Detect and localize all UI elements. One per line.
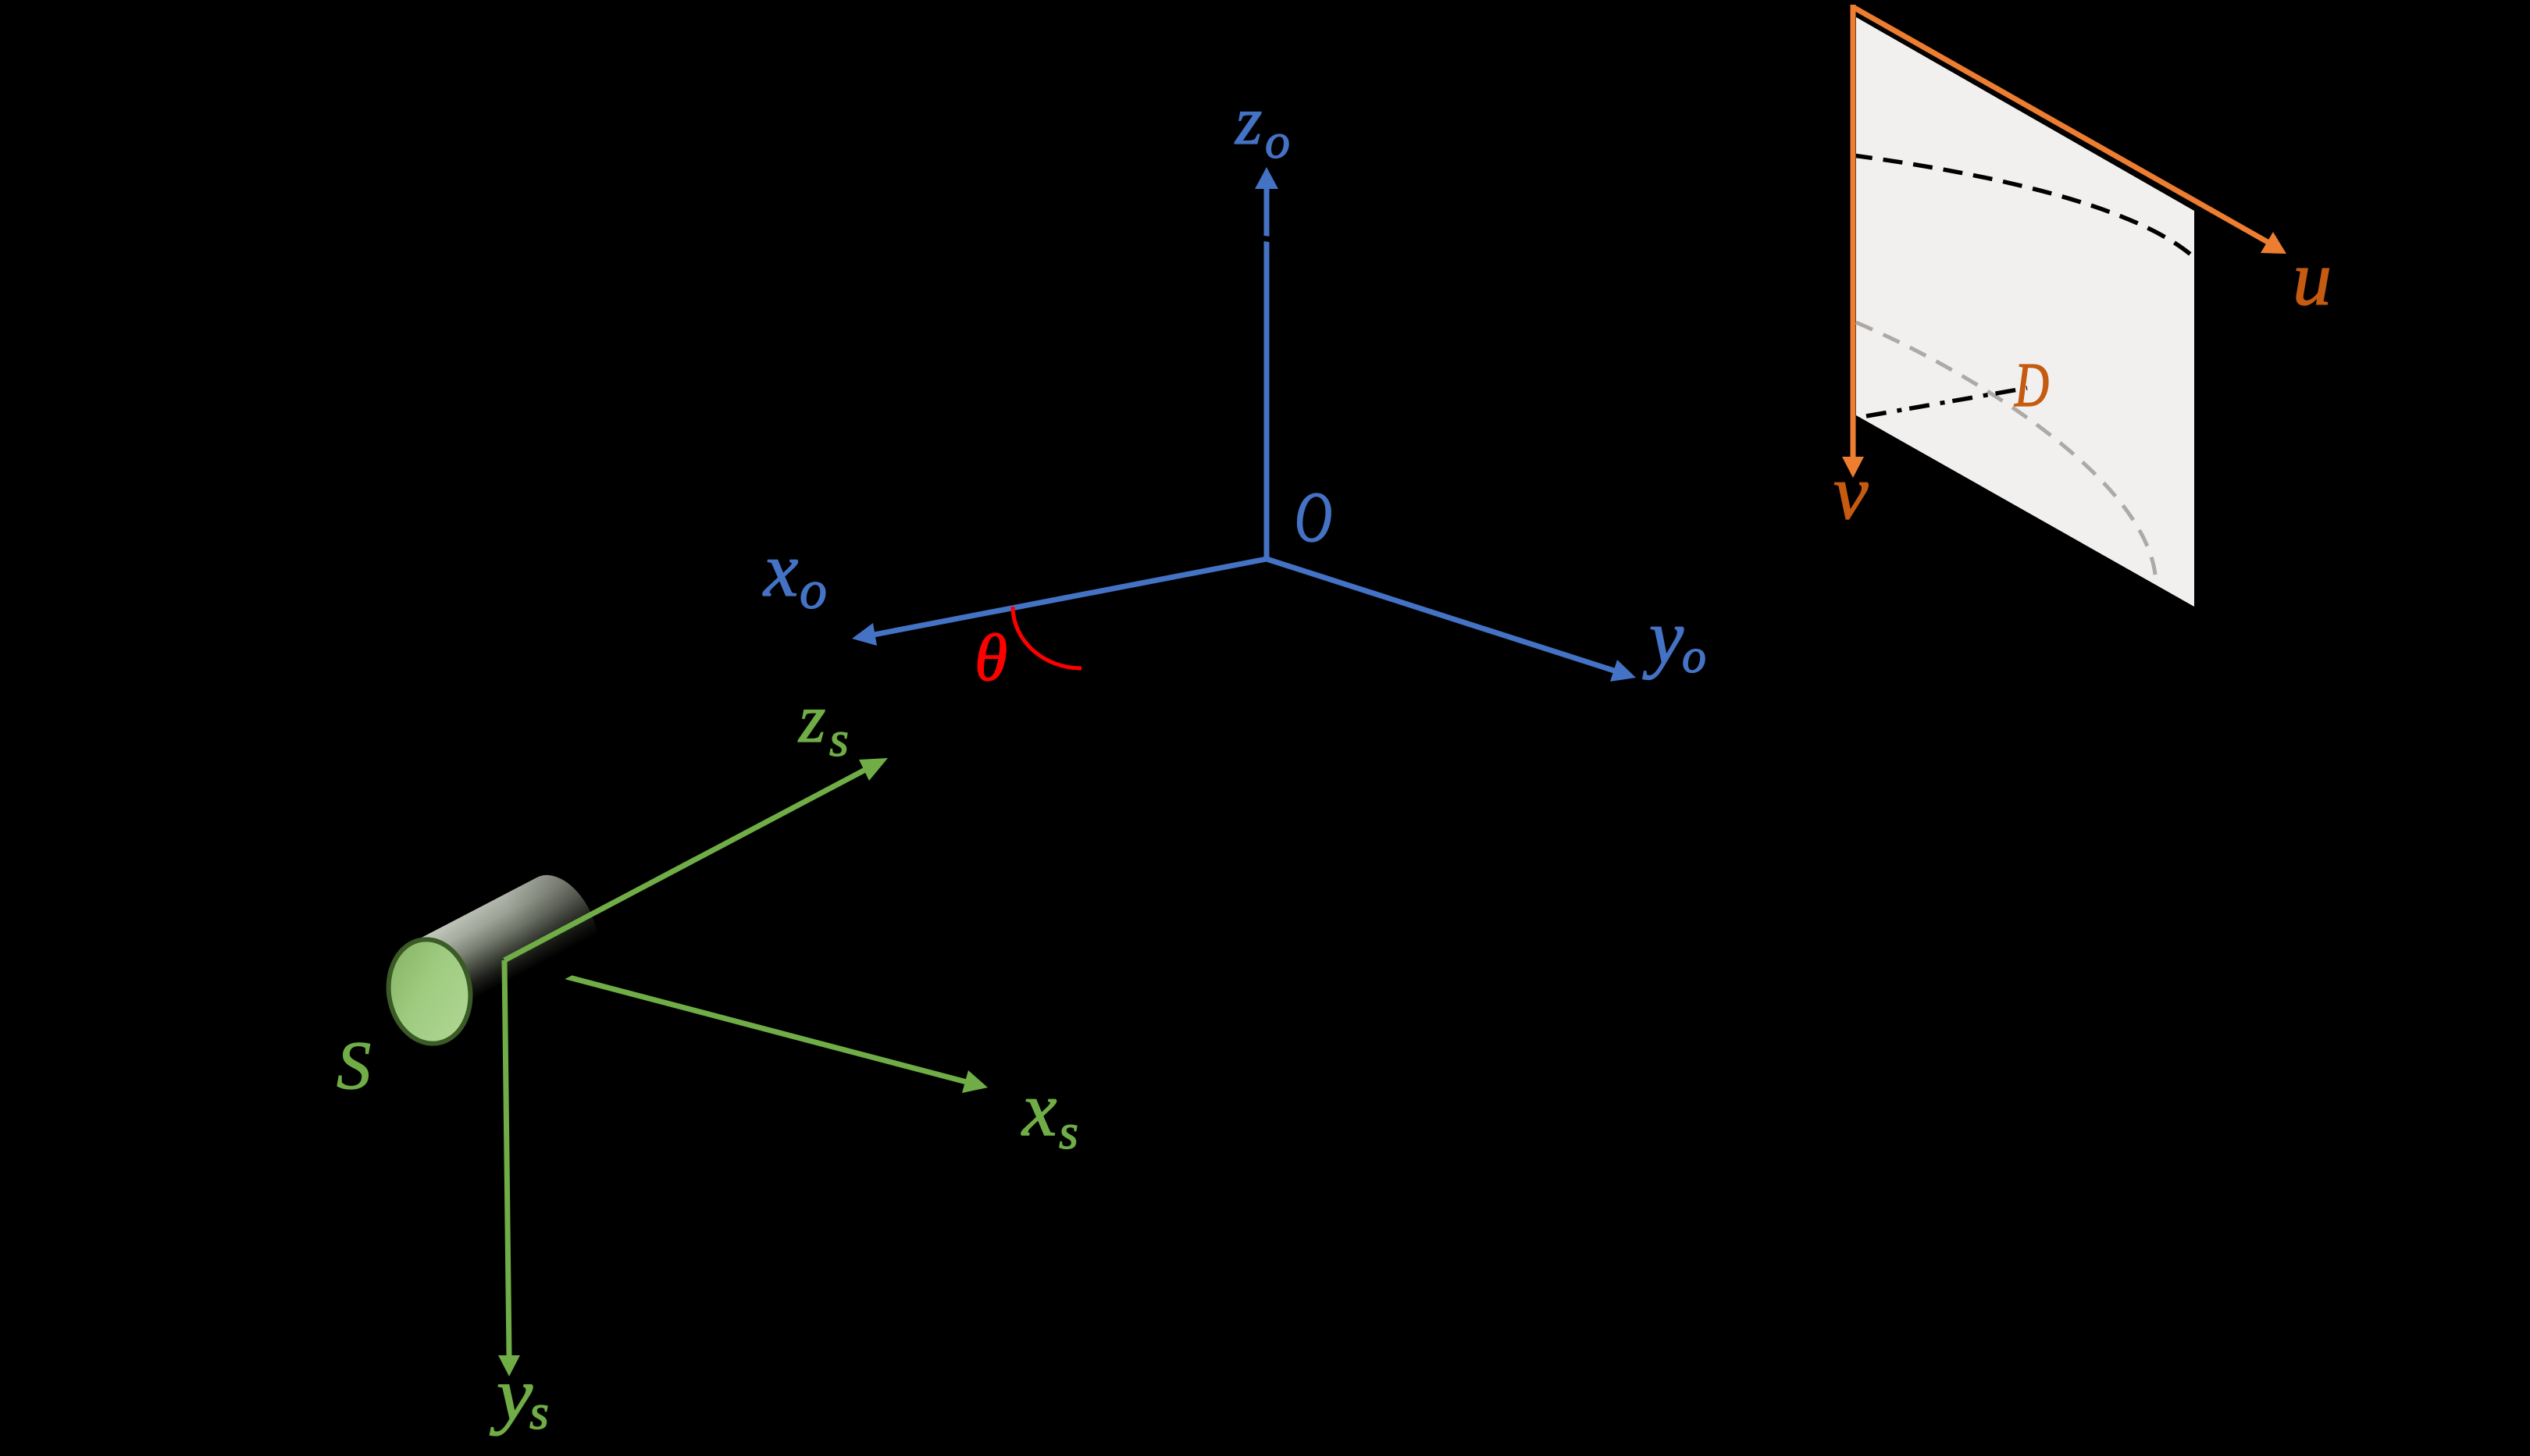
svg-text:D: D — [2014, 351, 2049, 420]
label z_o — [1235, 84, 1290, 169]
svg-text:s: s — [829, 711, 849, 767]
dashed trajectory far arc (black, on plane) — [1853, 155, 2193, 257]
svg-text:o: o — [1265, 113, 1290, 169]
x_s axis (green, drawn under cylinder) — [507, 961, 988, 1093]
svg-text:z: z — [798, 682, 825, 757]
label x_o — [762, 526, 827, 621]
dashed trajectory near arc (gray, on plane) — [1856, 322, 2156, 584]
svg-text:y: y — [1642, 593, 1684, 680]
svg-text:u: u — [2293, 235, 2332, 322]
label y_s — [489, 1352, 549, 1440]
svg-text:v: v — [1833, 449, 1869, 536]
detector plane — [1856, 17, 2194, 607]
u axis (orange) — [1853, 7, 2286, 254]
label z_s — [798, 682, 849, 767]
y_o axis (blue) — [1267, 559, 1636, 682]
dash-dot radius line to D — [1866, 388, 2027, 416]
svg-text:z: z — [1235, 84, 1262, 159]
y_s axis (green) — [498, 960, 520, 1376]
svg-text:S: S — [337, 1028, 371, 1104]
svg-text:o: o — [800, 561, 827, 621]
z_s axis (green) — [504, 758, 888, 960]
svg-text:s: s — [1059, 1104, 1078, 1159]
svg-text:s: s — [529, 1384, 549, 1440]
trajectory dash crossing z_o axis — [1256, 237, 1273, 240]
z_o axis (blue) — [1255, 167, 1278, 559]
angle theta arc (red) — [1013, 607, 1081, 668]
label y_o — [1642, 593, 1706, 683]
x-ray source cylinder S — [381, 863, 612, 1049]
v axis (orange) — [1842, 5, 1864, 478]
x_o axis (blue) — [852, 559, 1267, 646]
svg-text:O: O — [1295, 477, 1332, 557]
svg-text:x: x — [762, 526, 798, 613]
svg-text:x: x — [1021, 1066, 1057, 1152]
label x_s — [1021, 1066, 1078, 1159]
svg-text:o: o — [1682, 630, 1706, 683]
svg-text:θ: θ — [975, 620, 1007, 695]
